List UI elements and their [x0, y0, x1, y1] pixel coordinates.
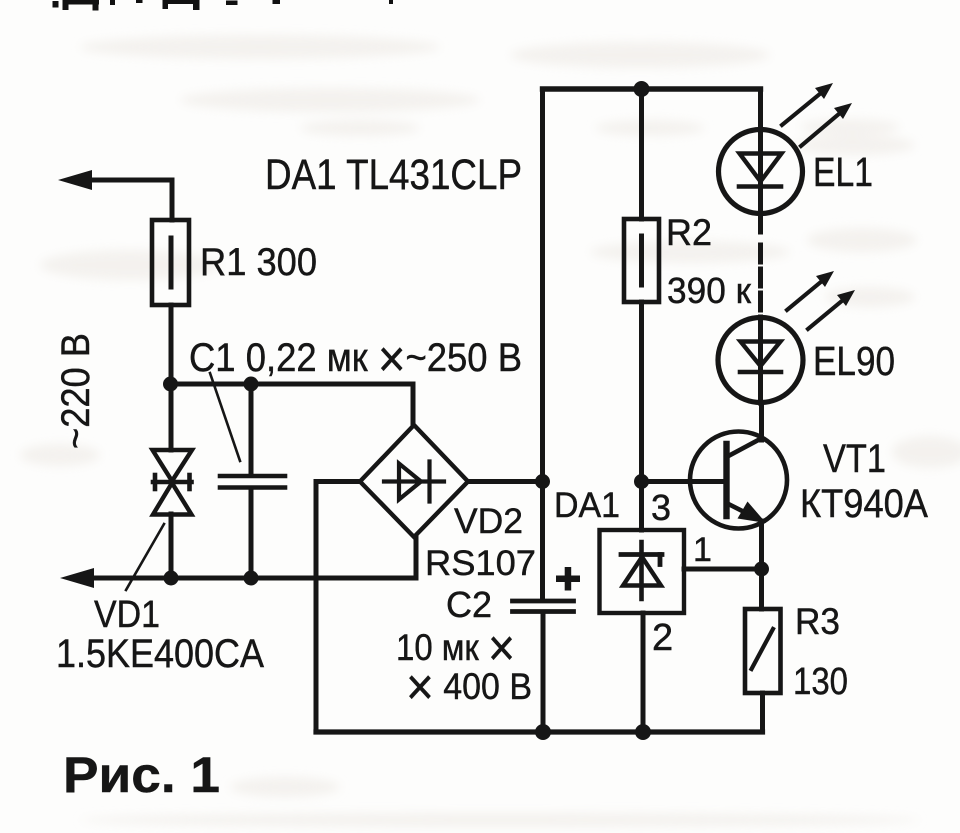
LED EL1 — [719, 130, 803, 214]
svg-text:EL90: EL90 — [813, 338, 895, 384]
svg-text:C1 0,22 мк ×~250 В: C1 0,22 мк ×~250 В — [189, 331, 522, 389]
svg-text:1: 1 — [693, 531, 712, 569]
top positive bus — [543, 86, 761, 91]
wire node to R3 — [759, 569, 764, 609]
EL1 light arrows — [782, 83, 852, 146]
wire R1 bottom to node A — [169, 305, 174, 384]
shunt regulator DA1 (TL431) — [600, 530, 685, 613]
wire bridge + output to rail — [468, 479, 543, 484]
svg-text:VD2: VD2 — [454, 502, 523, 541]
callout line to C1 — [210, 373, 240, 461]
resistor R1 — [152, 220, 189, 305]
junction C2 bottom — [535, 724, 551, 740]
transistor VT1 — [690, 432, 787, 529]
DC positive rail — [540, 89, 545, 600]
svg-text:RS107: RS107 — [425, 544, 536, 583]
C2 polarity plus — [556, 567, 580, 591]
svg-text:2: 2 — [652, 617, 673, 659]
junction ref / emitter / R3 — [754, 562, 769, 577]
junction VD1 bottom — [164, 571, 179, 586]
mains neutral bus with arrow — [60, 537, 416, 588]
wire bridge - output — [316, 482, 360, 733]
svg-text:× 400 В: × 400 В — [406, 659, 532, 717]
capacitor C1 — [220, 384, 285, 578]
junction C1 top — [244, 377, 259, 392]
junction bridge + rail — [535, 474, 550, 489]
LED EL90 — [718, 318, 803, 404]
svg-text:390 к: 390 к — [667, 270, 751, 311]
svg-text:VD1: VD1 — [94, 594, 160, 636]
svg-text:C2: C2 — [446, 584, 492, 625]
svg-text:КТ940А: КТ940А — [800, 482, 928, 526]
wire top bus to EL1 — [758, 89, 763, 130]
emitter wire — [759, 521, 764, 569]
bridge rectifier VD2 — [360, 425, 468, 537]
svg-text:R1 300: R1 300 — [200, 241, 317, 284]
dashed wire EL1 to EL90 — [758, 213, 763, 318]
suppressor VD1 — [153, 384, 193, 578]
EL90 light arrows — [787, 271, 855, 329]
svg-text:VT1: VT1 — [823, 437, 886, 481]
callout line to VD1 — [126, 524, 164, 590]
svg-text:3: 3 — [651, 487, 671, 528]
resistor R2 — [624, 89, 659, 530]
svg-text:~220 В: ~220 В — [54, 333, 98, 449]
junction node A — [163, 377, 178, 392]
base wire to VT1 — [642, 479, 727, 484]
mains input arrow (top, line L) — [58, 170, 172, 220]
junction C1 bottom — [244, 571, 259, 586]
collector wire EL90 to VT1 — [759, 403, 764, 440]
DA1 pin 2 wire (anode to bus) — [641, 613, 646, 732]
svg-text:DA1 TL431CLP: DA1 TL431CLP — [265, 151, 522, 199]
svg-text:EL1: EL1 — [813, 149, 873, 195]
junction R2 top — [634, 81, 650, 97]
svg-text:R3: R3 — [795, 601, 840, 642]
cropped headline letter bottoms (top edge) — [53, 0, 394, 11]
junction DA1 anode bottom — [635, 724, 651, 740]
svg-text:Рис. 1: Рис. 1 — [63, 747, 220, 803]
junction R2 / base / DA1 — [634, 474, 649, 489]
node A wire row to bridge — [170, 384, 413, 425]
svg-text:DA1: DA1 — [554, 486, 620, 525]
svg-text:130: 130 — [793, 661, 848, 703]
resistor R3 — [745, 609, 781, 732]
svg-text:1.5KE400CA: 1.5KE400CA — [56, 632, 264, 676]
DA1 pin 1 wire (ref) — [684, 567, 762, 572]
capacitor C2 — [513, 601, 574, 732]
svg-text:R2: R2 — [666, 212, 712, 253]
bottom DC minus bus — [316, 729, 763, 734]
